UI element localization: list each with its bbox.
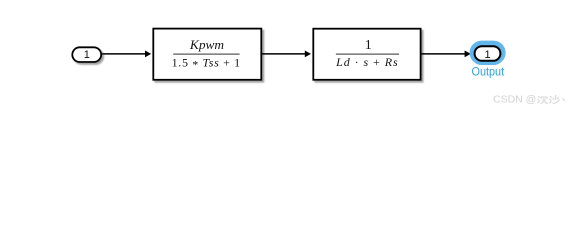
svg-text:1: 1 xyxy=(484,49,490,61)
svg-text:Output: Output xyxy=(472,65,505,79)
svg-text:Ld · s + Rs: Ld · s + Rs xyxy=(335,55,398,69)
svg-text:Kpwm: Kpwm xyxy=(189,37,224,52)
svg-text:1: 1 xyxy=(365,38,372,53)
svg-text:1: 1 xyxy=(84,49,90,61)
svg-text:CSDN @: CSDN @ xyxy=(493,94,536,106)
svg-text:1.5 * Tss + 1: 1.5 * Tss + 1 xyxy=(172,55,241,71)
